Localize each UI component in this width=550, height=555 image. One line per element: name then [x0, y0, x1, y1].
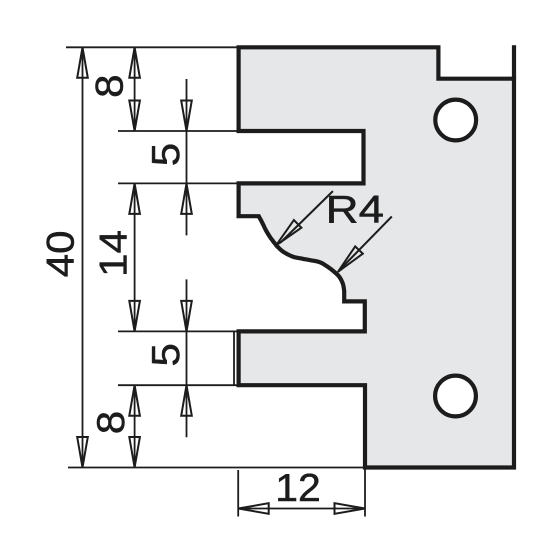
dimension 5 bottom arrow up — [181, 385, 192, 416]
extension line stub left of tongue — [233, 331, 235, 385]
leader arrow R4 left — [276, 220, 301, 245]
svg-text:12: 12 — [275, 467, 321, 510]
svg-text:8: 8 — [87, 74, 131, 97]
extension line x238 for 12 — [237, 470, 239, 517]
extension line y331 — [118, 330, 239, 332]
dimension 12 arrow left — [238, 503, 269, 514]
extension line bottom y467 — [68, 467, 365, 469]
svg-text:40: 40 — [38, 230, 82, 277]
dimension 8 top arrow down — [129, 101, 140, 132]
dimension 14 arrow up — [129, 183, 140, 214]
dimension 12 arrow right — [335, 503, 366, 514]
extension line top y47 — [66, 46, 239, 48]
dimension 8 top line — [134, 47, 136, 131]
dimension 5 bottom line — [186, 279, 188, 437]
extension line y183 — [118, 182, 239, 184]
dimension 14 arrow down — [129, 301, 140, 332]
svg-text:14: 14 — [91, 230, 135, 277]
blank edge stub top right — [512, 45, 516, 78]
dimension 8 top arrow up — [129, 47, 140, 78]
dimension 5 top arrow down — [181, 101, 192, 132]
svg-text:8: 8 — [88, 411, 132, 434]
svg-text:5: 5 — [143, 343, 187, 366]
dimension 5 top line — [186, 79, 188, 235]
leader arrow R4 right — [338, 246, 363, 272]
extension line y131 — [118, 130, 239, 132]
extension line x365 for 12 — [364, 470, 366, 517]
leader line R4 left — [280, 191, 333, 243]
dimension 5 top arrow up — [181, 183, 192, 214]
dimension 8 bottom arrow up — [129, 385, 140, 416]
svg-text:R4: R4 — [326, 188, 384, 231]
hole H1 — [435, 100, 476, 141]
dimension 5 bottom arrow down — [181, 301, 192, 332]
dimension 40 line — [82, 47, 84, 467]
dimension 40 arrow down — [77, 437, 88, 468]
part profile outline — [239, 47, 514, 467]
leader line R4 right — [341, 217, 392, 270]
svg-text:5: 5 — [144, 143, 188, 166]
hole H2 — [435, 376, 476, 417]
dimension 14 line — [134, 183, 136, 331]
extension line y385 — [118, 384, 239, 386]
dimension 12 line — [238, 508, 365, 510]
dimension 8 bottom line — [134, 385, 136, 467]
dimension 40 arrow up — [77, 47, 88, 78]
dimension 8 bottom arrow down — [129, 437, 140, 468]
